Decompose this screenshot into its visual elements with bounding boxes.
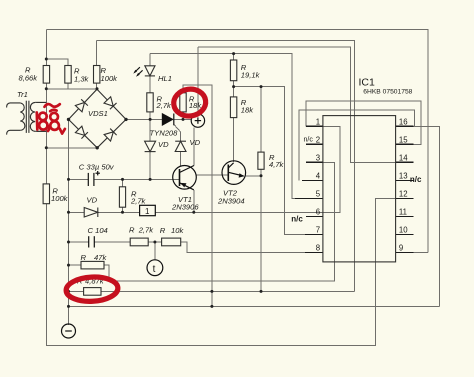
bridge diode top-left bbox=[75, 99, 88, 111]
svg-text:1: 1 bbox=[145, 207, 150, 216]
pin 6 stub (n/c) bbox=[306, 215, 323, 217]
wire R4,87k row to drop bbox=[69, 290, 84, 292]
svg-text:2: 2 bbox=[316, 136, 320, 145]
bridge diode bottom-right bbox=[104, 129, 117, 142]
wire rail pin 4 to pin 16 bbox=[299, 110, 415, 181]
wire top rail to pin 9 bbox=[46, 30, 428, 253]
svg-text:4,7k: 4,7k bbox=[269, 160, 285, 169]
thyristor TYN208 bbox=[162, 113, 174, 126]
svg-text:VD: VD bbox=[190, 138, 201, 147]
wire plus terminal to VT1 collector bbox=[193, 127, 195, 165]
svg-text:15: 15 bbox=[399, 136, 408, 145]
svg-text:TYN208: TYN208 bbox=[150, 129, 179, 138]
svg-text:9: 9 bbox=[399, 244, 403, 253]
svg-text:VDS1: VDS1 bbox=[88, 109, 108, 118]
wire bottom rail to pin 12 bbox=[46, 198, 413, 345]
wire left minus column from bridge left corner bbox=[68, 119, 70, 325]
svg-text:2,7k: 2,7k bbox=[156, 101, 173, 110]
box 1 bbox=[140, 205, 156, 215]
svg-text:IC1: IC1 bbox=[359, 77, 376, 89]
wire transformer primary top lead bbox=[7, 103, 21, 108]
svg-text:11: 11 bbox=[399, 208, 407, 217]
svg-text:8,66k: 8,66k bbox=[19, 74, 39, 83]
bridge diode bottom-left bbox=[75, 126, 88, 139]
wire R100k top stubs bbox=[96, 40, 98, 65]
wire R4,7k column bbox=[260, 87, 262, 153]
svg-text:HL1: HL1 bbox=[158, 74, 172, 83]
svg-text:10k: 10k bbox=[171, 226, 184, 235]
diode VD (right vertical, pointing up) bbox=[175, 141, 186, 151]
pin stub overlays (connected pins) bbox=[295, 126, 413, 252]
svg-text:4: 4 bbox=[316, 172, 321, 181]
red annotation: circle around R 18k bbox=[172, 87, 207, 118]
wire R1,3k bottom stub bbox=[67, 83, 69, 89]
resistor R 2,7k mid vertical bbox=[119, 187, 125, 207]
svg-text:VD: VD bbox=[87, 196, 98, 205]
wire C104 row bbox=[69, 241, 89, 243]
wire C33u row to VT1 base bbox=[69, 178, 89, 180]
svg-text:6HKB 07501758: 6HKB 07501758 bbox=[363, 89, 412, 96]
wire t sensor stub bbox=[154, 242, 156, 260]
svg-text:C 33µ 50v: C 33µ 50v bbox=[79, 162, 115, 171]
resistor R 8,66k bbox=[43, 66, 49, 84]
wire HL1 column bbox=[149, 54, 151, 66]
diode VD (horizontal on row) bbox=[84, 208, 98, 218]
wire bridge bottom to left column bbox=[46, 147, 97, 149]
t sensor circle bbox=[147, 260, 163, 276]
svg-text:47k: 47k bbox=[94, 253, 107, 262]
LED HL1 emission arrows bbox=[133, 67, 142, 77]
svg-text:R: R bbox=[81, 253, 87, 262]
red annotation: handwritten 18,8v near transformer bbox=[37, 104, 65, 134]
wire rail pin 1 to pin 15 bbox=[306, 101, 421, 144]
wire minus rail bbox=[69, 305, 440, 307]
wire VT1 to VT2 base bbox=[196, 174, 228, 176]
transistor VT2 2N3904 bbox=[222, 161, 246, 185]
capacitor C 33u 50v bbox=[88, 171, 100, 186]
plus terminal bbox=[191, 114, 204, 127]
svg-text:1: 1 bbox=[316, 118, 320, 127]
bridge rectifier VDS1 diamond bbox=[69, 89, 127, 148]
wire transformer primary bottom lead bbox=[7, 130, 21, 134]
svg-text:n/c: n/c bbox=[304, 137, 314, 144]
svg-text:2N3906: 2N3906 bbox=[171, 203, 199, 212]
wire R2,7k mid stubs bbox=[122, 179, 124, 186]
wire rail from plus terminal to pin 14 bbox=[198, 47, 413, 162]
resistor R 18k right bbox=[230, 97, 236, 118]
transformer core bbox=[25, 101, 27, 133]
wire minus circle stub bbox=[68, 306, 70, 324]
svg-text:8: 8 bbox=[316, 244, 320, 253]
wire rail R19,1k bottom to pin 7 bbox=[234, 87, 323, 235]
resistor R 4,87k (circled) bbox=[84, 288, 101, 296]
svg-text:19,1k: 19,1k bbox=[241, 71, 261, 80]
wire VT1 emitter down to box-1 row bbox=[193, 190, 195, 213]
transformer Tr1 left winding bbox=[20, 103, 25, 130]
wire R18k-left bottom stub bbox=[182, 112, 184, 120]
resistor R 18k (circled) bbox=[180, 93, 186, 112]
wire R10k to pin 8 bbox=[181, 242, 323, 253]
wire pin 16 to minus rail bbox=[396, 126, 440, 306]
pin 11 stub bbox=[396, 215, 414, 217]
wire VT2 emitter to R4,87k row bbox=[245, 176, 261, 292]
wire plus terminal top stub bbox=[197, 47, 199, 114]
minus terminal bbox=[62, 324, 76, 338]
resistor R 2,7k (HL1 column) bbox=[147, 93, 153, 112]
svg-text:Tr1: Tr1 bbox=[17, 90, 28, 99]
svg-text:10: 10 bbox=[399, 226, 408, 235]
LED HL1 bbox=[145, 66, 155, 76]
resistor R 19,1k bbox=[230, 60, 236, 81]
red annotation: circle around R 4,87k bbox=[66, 276, 119, 303]
wire resistor top row bbox=[46, 59, 68, 66]
pin 14 stub bbox=[396, 161, 414, 163]
pin 9 stub bbox=[396, 252, 414, 254]
svg-text:12: 12 bbox=[399, 190, 408, 199]
resistor R 10k horizontal bbox=[162, 238, 181, 246]
svg-text:n/c: n/c bbox=[410, 175, 422, 184]
svg-text:18k: 18k bbox=[241, 106, 254, 115]
svg-text:100k: 100k bbox=[101, 74, 119, 83]
pin 10 stub bbox=[396, 234, 414, 236]
svg-text:C 104: C 104 bbox=[88, 226, 108, 235]
diode VD (left vertical, pointing down) bbox=[145, 141, 156, 151]
bridge diode top-right bbox=[104, 97, 117, 110]
IC1 body bbox=[323, 116, 396, 262]
svg-text:3: 3 bbox=[316, 154, 320, 163]
svg-text:5: 5 bbox=[316, 190, 321, 199]
svg-text:13: 13 bbox=[399, 172, 408, 181]
wire left resistor column bbox=[45, 30, 47, 66]
wire rail HL1 / R19,1k to pin 5 bbox=[150, 54, 323, 199]
resistor R 2,7k horizontal bbox=[130, 238, 148, 246]
transistor VT1 2N3906 bbox=[173, 166, 197, 190]
wire R19,1k/R18k column bbox=[233, 54, 235, 60]
svg-text:16: 16 bbox=[399, 118, 408, 127]
resistor R 4,7k bbox=[258, 152, 264, 169]
wire thyristor gate to VD2 to VT1 bbox=[174, 125, 181, 142]
svg-text:7: 7 bbox=[316, 226, 320, 235]
svg-text:t: t bbox=[153, 264, 156, 275]
resistor R 100k top bbox=[94, 66, 100, 84]
wire main rail bridge to thyristor to plus bbox=[126, 118, 162, 120]
pin 13 stub (n/c) bbox=[396, 179, 414, 181]
svg-text:2N3904: 2N3904 bbox=[217, 197, 245, 206]
svg-text:R 2,7k: R 2,7k bbox=[129, 226, 154, 235]
svg-text:2,7k: 2,7k bbox=[130, 197, 147, 206]
transformer Tr1 right winding bbox=[30, 102, 35, 131]
svg-text:14: 14 bbox=[399, 154, 408, 163]
wire R47k row to pin 3 bbox=[69, 264, 82, 266]
resistor R 47k bbox=[81, 261, 104, 269]
capacitor C 104 bbox=[89, 236, 95, 247]
pin 2 stub (n/c) bbox=[306, 143, 323, 145]
wire R18k-left top to long drop column bbox=[183, 85, 212, 307]
wire resistor bottom row bbox=[46, 83, 97, 89]
svg-text:VD: VD bbox=[158, 140, 169, 149]
wire VD1 column bbox=[149, 119, 151, 141]
svg-text:1,3k: 1,3k bbox=[74, 75, 90, 84]
svg-text:R: R bbox=[160, 226, 166, 235]
svg-text:100k: 100k bbox=[51, 194, 69, 203]
resistor R 1,3k bbox=[65, 66, 71, 84]
wire VD row through box-1 into IC to pin 1 bbox=[69, 211, 85, 213]
resistor R 100k lower bbox=[43, 184, 49, 204]
svg-text:n/c: n/c bbox=[291, 215, 303, 224]
wire transformer right column down to bottom rail bbox=[45, 89, 47, 103]
svg-text:6: 6 bbox=[316, 208, 320, 217]
wire rail from R100k top to R4,87k line bbox=[97, 40, 355, 291]
